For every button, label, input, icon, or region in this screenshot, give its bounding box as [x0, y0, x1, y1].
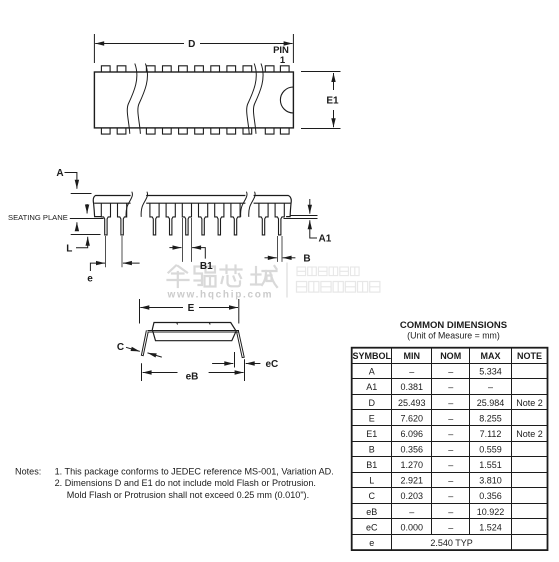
svg-text:E: E: [188, 303, 195, 314]
svg-text:MAX: MAX: [481, 351, 501, 361]
svg-text:–: –: [448, 445, 453, 455]
package top extension line: [71, 193, 92, 195]
svg-text:B1: B1: [366, 460, 377, 470]
dimension E extension lines: [140, 299, 239, 324]
svg-text:0.000: 0.000: [401, 522, 424, 532]
svg-text:E: E: [369, 413, 375, 423]
svg-text:B: B: [303, 253, 310, 264]
svg-text:Note 2: Note 2: [516, 398, 543, 408]
svg-text:–: –: [448, 476, 453, 486]
svg-text:A: A: [369, 367, 375, 377]
end view right lead: [237, 330, 245, 357]
watermark tagline 1: [297, 267, 359, 276]
svg-text:SYMBOL: SYMBOL: [353, 351, 392, 361]
side view body segment right: [254, 196, 292, 217]
top view break lines right: [247, 64, 263, 134]
svg-text:–: –: [448, 367, 453, 377]
dimension e arrows: [90, 263, 139, 271]
svg-text:E1: E1: [326, 96, 339, 107]
svg-text:B1: B1: [200, 261, 213, 272]
svg-text:2.540 TYP: 2.540 TYP: [430, 538, 472, 548]
svg-text:E1: E1: [366, 429, 377, 439]
side view body segment left: [93, 196, 130, 217]
dimension D extension lines: [94, 34, 293, 63]
end view body outline: [152, 323, 236, 341]
svg-text:6.096: 6.096: [401, 429, 424, 439]
dimension L label and arrow: [76, 237, 88, 248]
dimension A label and arrow: [65, 173, 77, 189]
watermark logo glyph 2: [195, 267, 216, 287]
table outer border: [352, 348, 548, 550]
svg-text:PIN: PIN: [273, 45, 289, 56]
svg-text:eB: eB: [366, 507, 377, 517]
watermark divider bar: [286, 263, 288, 298]
table column lines: [392, 348, 512, 550]
dimension eB extension line left: [141, 363, 143, 381]
side view shoulders and legs: [101, 203, 284, 235]
svg-text:0.356: 0.356: [401, 445, 424, 455]
svg-text:25.984: 25.984: [477, 398, 505, 408]
svg-text:D: D: [369, 398, 376, 408]
dimension e extension lines: [106, 236, 123, 267]
table data rows: [366, 367, 543, 548]
dimension E1 arrows: [333, 73, 335, 127]
svg-text:2.921: 2.921: [401, 476, 424, 486]
dimension eB arrows: [143, 372, 244, 374]
pin-1 end notch (semicircle): [280, 87, 293, 113]
svg-text:0.381: 0.381: [401, 382, 424, 392]
svg-text:eC: eC: [366, 522, 378, 532]
svg-text:2. Dimensions D and E1 do not: 2. Dimensions D and E1 do not include mo…: [55, 478, 316, 488]
svg-text:B: B: [369, 445, 375, 455]
svg-text:25.493: 25.493: [398, 398, 426, 408]
svg-text:1. This package conforms to JE: 1. This package conforms to JEDEC refere…: [55, 466, 334, 476]
svg-text:Mold Flash or Protrusion shall: Mold Flash or Protrusion shall not excee…: [67, 490, 309, 500]
svg-text:–: –: [448, 460, 453, 470]
svg-text:–: –: [409, 367, 414, 377]
svg-text:MIN: MIN: [404, 351, 421, 361]
svg-text:–: –: [448, 398, 453, 408]
dimension eC arrows: [212, 363, 260, 365]
watermark logo glyph 4: [251, 266, 277, 287]
dimension E1 extension lines: [301, 72, 341, 129]
seating plane line: [70, 218, 104, 220]
svg-text:A1: A1: [366, 382, 377, 392]
svg-text:D: D: [188, 39, 195, 50]
top view pins, bottom row: [101, 128, 289, 134]
svg-text:(Unit of Measure = mm): (Unit of Measure = mm): [407, 331, 500, 341]
svg-text:–: –: [448, 507, 453, 517]
watermark logo glyph 1: [168, 266, 189, 288]
svg-text:–: –: [448, 382, 453, 392]
svg-text:1: 1: [280, 55, 286, 66]
table row lines: [352, 364, 548, 535]
svg-text:L: L: [369, 476, 374, 486]
svg-text:A: A: [56, 168, 63, 179]
svg-text:–: –: [488, 382, 493, 392]
dimension eC extension lines: [235, 352, 245, 381]
svg-text:1.270: 1.270: [401, 460, 424, 470]
side view break curves: [126, 192, 255, 217]
watermark logo glyph 3: [221, 266, 242, 287]
dimension B extension lines: [278, 236, 283, 262]
svg-text:SEATING PLANE: SEATING PLANE: [8, 213, 68, 222]
svg-text:–: –: [409, 507, 414, 517]
top view pins, top row: [101, 66, 289, 72]
side view body segment middle: [146, 196, 245, 204]
svg-text:A1: A1: [319, 234, 332, 245]
table header row: [353, 351, 542, 361]
svg-text:eB: eB: [186, 371, 199, 382]
svg-text:C: C: [117, 342, 124, 353]
svg-text:Notes:: Notes:: [15, 466, 41, 476]
svg-text:5.334: 5.334: [479, 367, 502, 377]
A1 reference lines at right: [284, 216, 318, 219]
dimension E arrows: [140, 307, 238, 309]
dimension B arrows: [265, 257, 296, 259]
arrow to seating plane from above: [86, 204, 88, 214]
svg-text:e: e: [87, 274, 93, 285]
svg-text:e: e: [369, 538, 374, 548]
svg-text:0.203: 0.203: [401, 491, 424, 501]
watermark tagline 2: [297, 282, 380, 293]
dimension A1 arrows and elbow: [310, 199, 317, 238]
svg-text:0.356: 0.356: [479, 491, 502, 501]
svg-text:10.922: 10.922: [477, 507, 505, 517]
end view mold parting lines: [148, 331, 240, 333]
svg-text:NOM: NOM: [440, 351, 461, 361]
end view left lead: [141, 330, 148, 355]
svg-text:8.255: 8.255: [479, 413, 502, 423]
arrow to seating plane from below: [76, 222, 78, 230]
lead tip extension line: [71, 234, 101, 236]
svg-text:–: –: [448, 429, 453, 439]
dimension B1 arrows and elbow: [169, 248, 205, 259]
svg-text:1.524: 1.524: [479, 522, 502, 532]
svg-text:NOTE: NOTE: [517, 351, 542, 361]
svg-text:7.112: 7.112: [480, 429, 502, 439]
svg-text:–: –: [448, 413, 453, 423]
svg-text:3.810: 3.810: [479, 476, 502, 486]
svg-text:7.620: 7.620: [401, 413, 424, 423]
dimension B1 extension lines: [183, 218, 192, 262]
svg-text:0.559: 0.559: [479, 445, 502, 455]
top view package body: [94, 72, 293, 128]
top view break lines left: [127, 64, 147, 134]
svg-text:–: –: [448, 522, 453, 532]
svg-text:eC: eC: [266, 359, 279, 370]
svg-text:www.hqchip.com: www.hqchip.com: [167, 290, 274, 301]
svg-text:C: C: [369, 491, 376, 501]
end view top edge tick marks: [177, 323, 211, 325]
svg-text:–: –: [448, 491, 453, 501]
svg-text:Note 2: Note 2: [516, 429, 543, 439]
svg-text:1.551: 1.551: [479, 460, 502, 470]
svg-text:L: L: [66, 244, 72, 255]
dimension D arrows: [95, 43, 292, 45]
